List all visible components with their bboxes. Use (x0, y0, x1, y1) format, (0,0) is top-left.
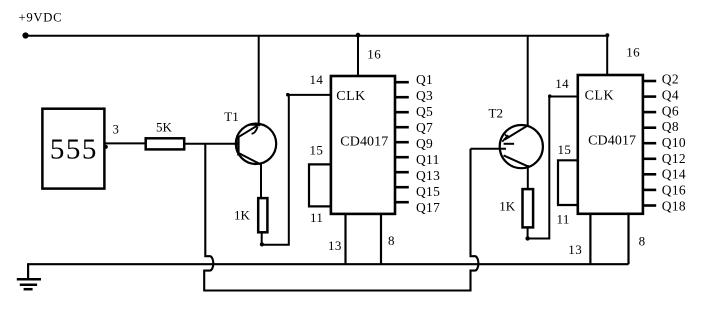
svg-text:14: 14 (555, 76, 569, 91)
svg-text:13: 13 (568, 242, 582, 257)
svg-text:14: 14 (310, 72, 324, 87)
svg-text:Q12: Q12 (662, 151, 686, 166)
svg-text:8: 8 (388, 233, 395, 248)
svg-text:13: 13 (328, 238, 342, 253)
svg-text:T2: T2 (489, 105, 503, 120)
svg-text:555: 555 (50, 134, 98, 166)
svg-text:T1: T1 (224, 109, 238, 124)
svg-text:CD4017: CD4017 (588, 134, 636, 149)
svg-text:Q2: Q2 (662, 72, 679, 87)
svg-text:15: 15 (558, 142, 572, 157)
svg-text:16: 16 (626, 44, 640, 59)
svg-text:Q15: Q15 (416, 184, 440, 199)
svg-text:CD4017: CD4017 (340, 134, 388, 149)
svg-text:Q14: Q14 (662, 167, 686, 182)
svg-text:Q8: Q8 (662, 119, 679, 134)
svg-text:Q18: Q18 (662, 198, 686, 213)
svg-text:+9VDC: +9VDC (19, 10, 63, 24)
svg-text:16: 16 (367, 47, 381, 62)
svg-text:Q13: Q13 (416, 168, 440, 183)
svg-text:5K: 5K (156, 120, 173, 135)
svg-text:Q17: Q17 (416, 200, 440, 215)
svg-text:11: 11 (557, 212, 570, 227)
svg-text:Q7: Q7 (416, 120, 433, 135)
svg-text:CLK: CLK (585, 89, 615, 104)
svg-text:Q16: Q16 (662, 183, 686, 198)
svg-text:Q4: Q4 (662, 88, 679, 103)
svg-text:3: 3 (113, 123, 119, 137)
svg-text:8: 8 (639, 234, 646, 249)
svg-text:Q6: Q6 (662, 103, 679, 118)
svg-text:11: 11 (310, 210, 323, 225)
svg-text:CLK: CLK (336, 89, 366, 104)
svg-text:Q1: Q1 (416, 72, 433, 87)
svg-text:15: 15 (310, 143, 324, 158)
svg-text:Q9: Q9 (416, 136, 433, 151)
svg-text:1K: 1K (499, 199, 516, 214)
svg-text:Q11: Q11 (416, 152, 440, 167)
svg-text:1K: 1K (234, 208, 251, 223)
svg-text:Q3: Q3 (416, 88, 433, 103)
svg-text:Q10: Q10 (662, 135, 686, 150)
svg-text:Q5: Q5 (416, 104, 433, 119)
